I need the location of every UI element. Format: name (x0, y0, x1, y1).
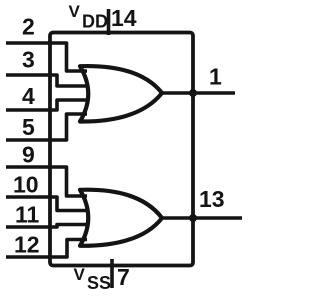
svg-text:7: 7 (117, 264, 130, 290)
svg-text:9: 9 (22, 142, 35, 168)
svg-text:14: 14 (111, 5, 137, 31)
wire pin 3 input (6, 75, 87, 86)
svg-text:10: 10 (13, 172, 39, 198)
svg-text:V: V (74, 265, 86, 284)
wire pin 5 input (6, 114, 87, 140)
svg-text:13: 13 (199, 186, 225, 212)
junction output 13 (189, 214, 197, 222)
junction output 1 (189, 89, 197, 97)
svg-text:12: 12 (14, 232, 40, 258)
IC package outline (50, 33, 193, 266)
wire pin 9 input (6, 167, 87, 196)
svg-text:1: 1 (209, 64, 222, 90)
svg-text:SS: SS (87, 273, 111, 293)
svg-text:V: V (69, 2, 81, 21)
svg-text:11: 11 (15, 202, 40, 228)
svg-text:5: 5 (22, 114, 35, 140)
pin 14 lead tick (107, 9, 111, 35)
wire pin 2 input (6, 43, 87, 71)
or-gate U2 (80, 190, 162, 246)
wire pin 13 output (162, 216, 243, 220)
wire pin 12 input (6, 240, 87, 258)
pin 7 lead tick (110, 259, 114, 288)
wire pin 10 input (6, 197, 87, 211)
wire pin 11 input (6, 225, 87, 228)
svg-text:DD: DD (82, 12, 108, 32)
svg-text:3: 3 (22, 47, 35, 73)
svg-text:2: 2 (22, 14, 35, 40)
or-gate U1 (80, 66, 162, 121)
wire pin 4 input (6, 100, 87, 110)
svg-text:4: 4 (22, 83, 35, 109)
wire pin 1 output (162, 91, 236, 95)
